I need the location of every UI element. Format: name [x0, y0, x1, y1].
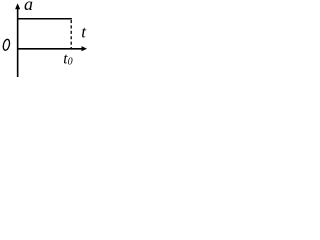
- svg-text:0: 0: [68, 57, 73, 68]
- svg-text:a: a: [24, 0, 33, 14]
- svg-text:t: t: [81, 23, 87, 42]
